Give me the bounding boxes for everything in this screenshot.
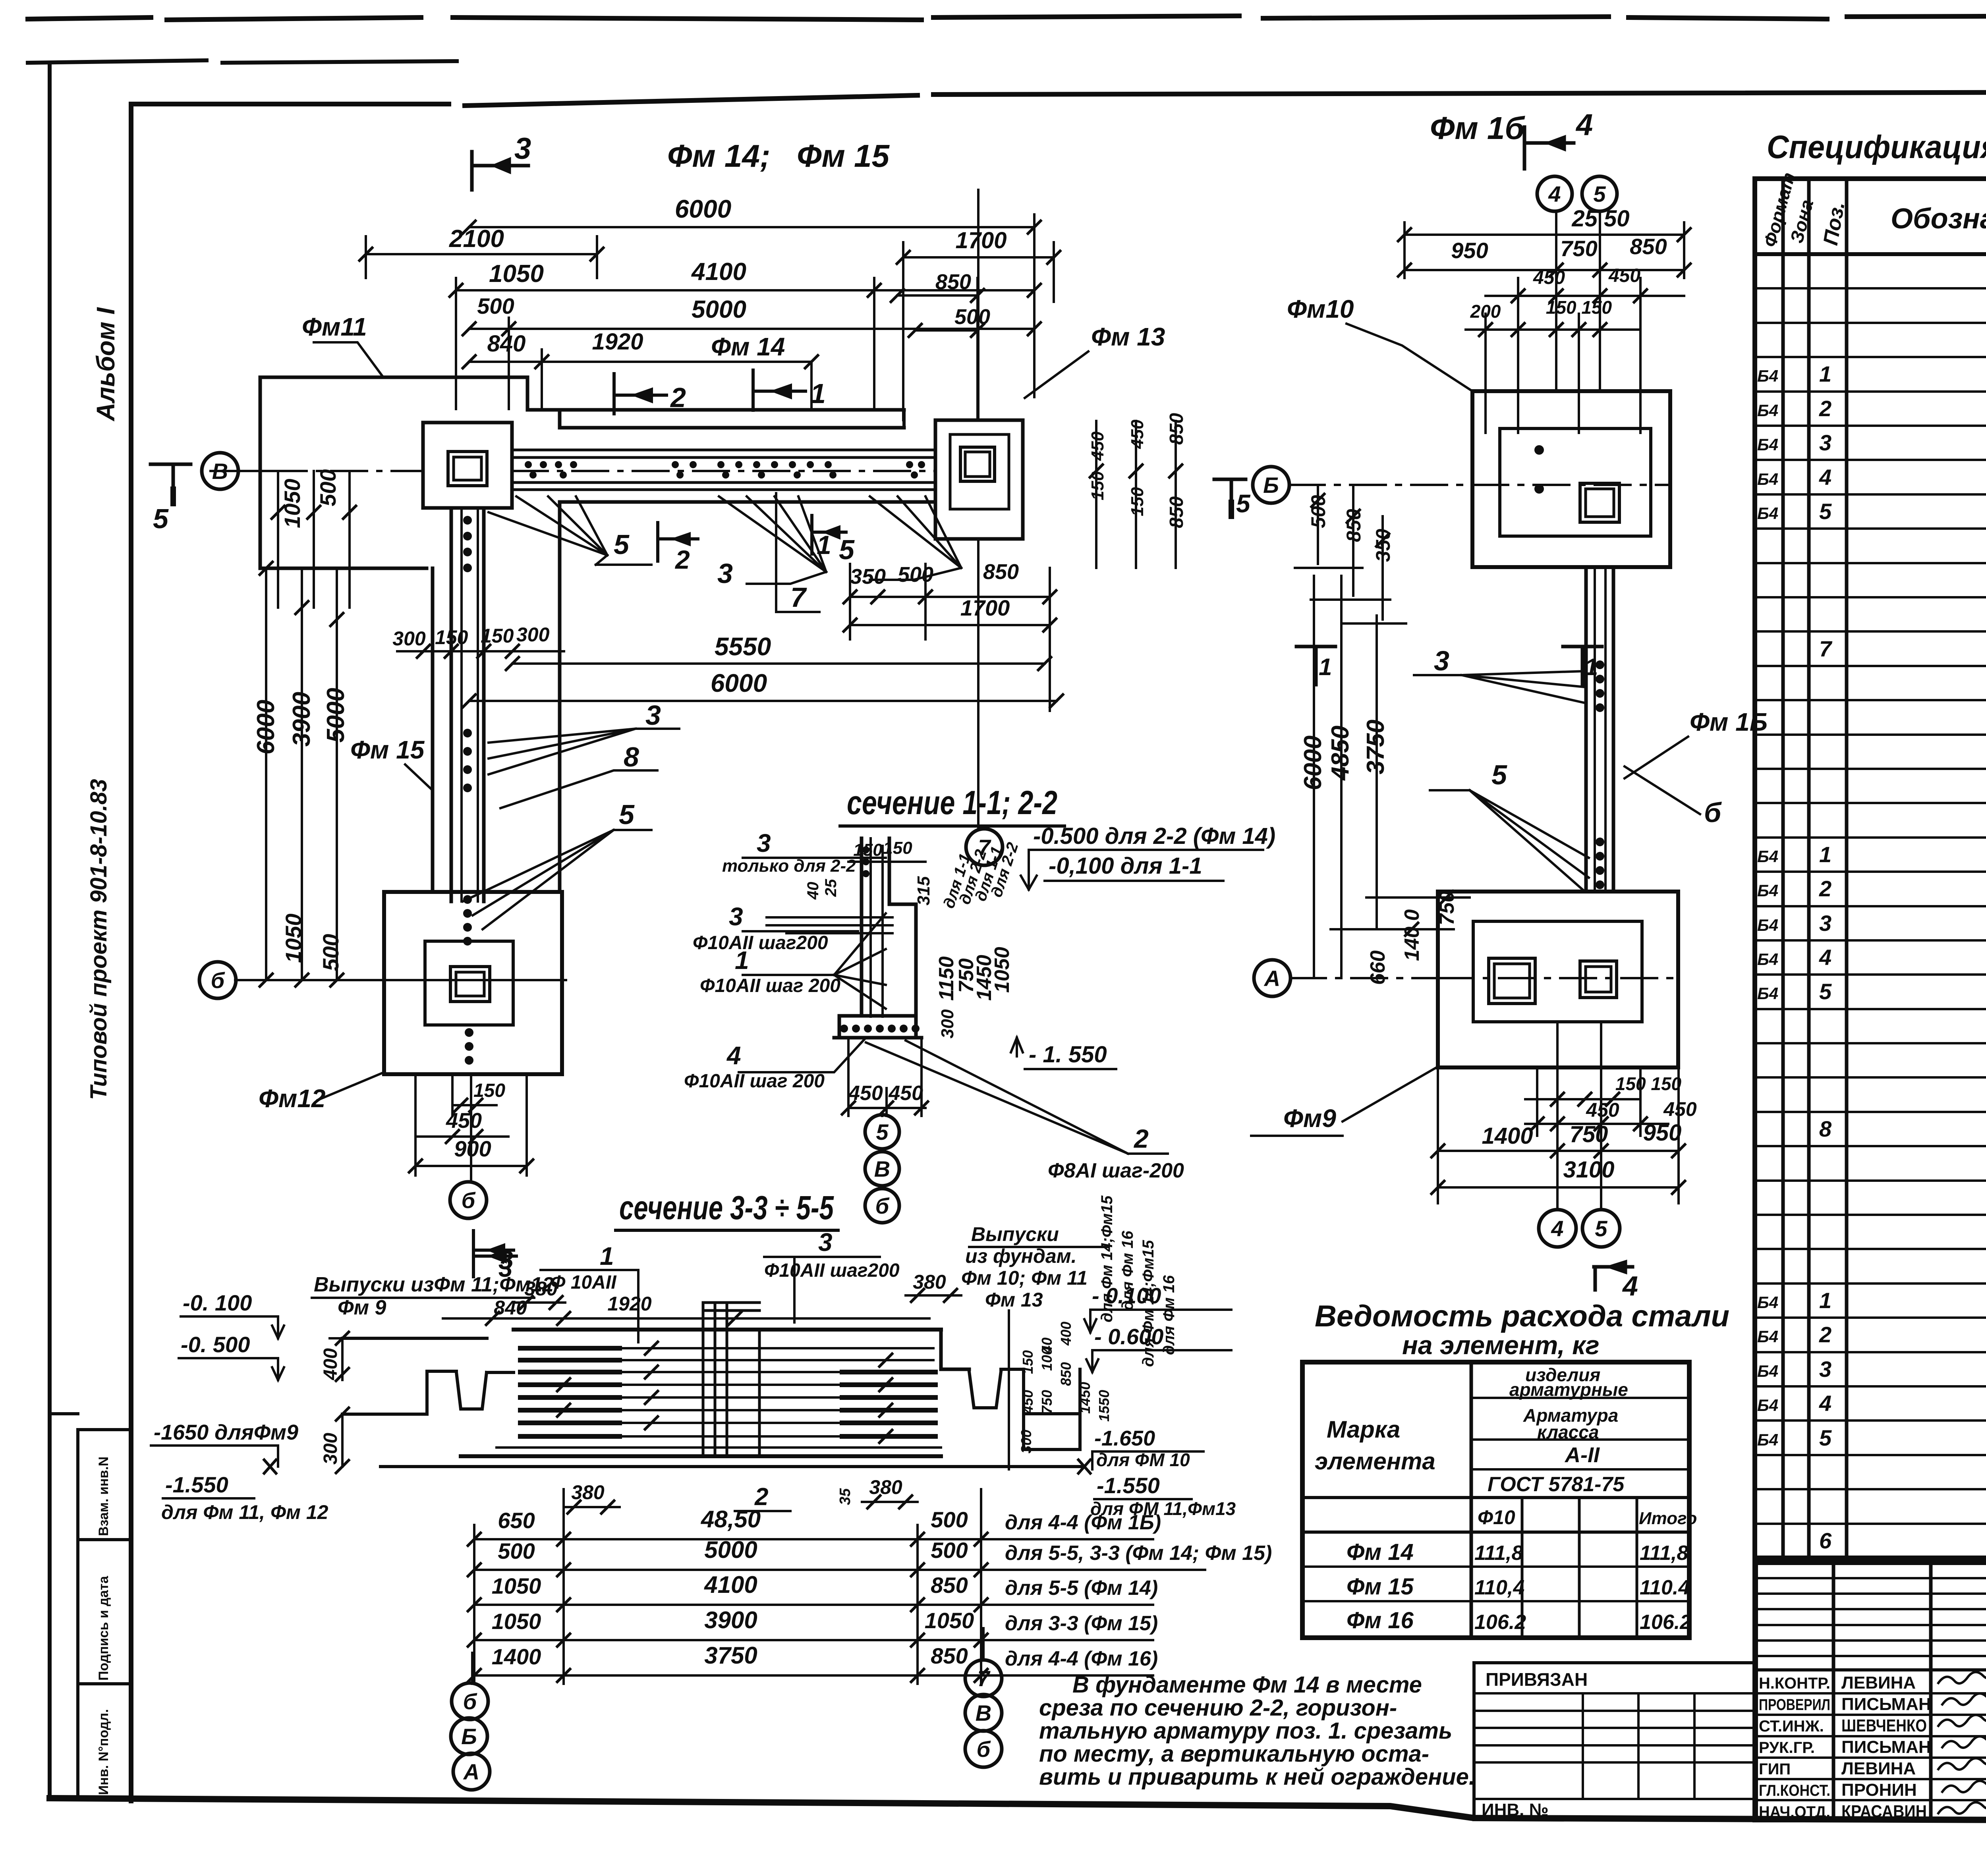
dims under Fm12: 150 450 900 [415, 1074, 527, 1181]
svg-text:1920: 1920 [592, 329, 643, 355]
svg-text:2100: 2100 [449, 225, 504, 253]
svg-text:- 0.600: - 0.600 [1094, 1324, 1163, 1349]
labels left of detail [684, 829, 856, 1092]
svg-text:Фм 15: Фм 15 [1347, 1574, 1414, 1600]
svg-text:Фм 16: Фм 16 [1347, 1608, 1414, 1633]
svg-text:150: 150 [481, 625, 514, 647]
svg-text:650: 650 [498, 1508, 535, 1533]
svg-text:Подпись и дата: Подпись и дата [96, 1575, 111, 1681]
svg-text:900: 900 [454, 1136, 491, 1161]
svg-text:5: 5 [1819, 499, 1832, 524]
svg-text:380: 380 [869, 1476, 902, 1498]
axis circles 4 5 top [1537, 176, 1572, 211]
svg-text:300: 300 [392, 627, 426, 650]
leader 3 fan mid beam [719, 496, 826, 584]
svg-text:450: 450 [446, 1109, 482, 1133]
svg-text:1: 1 [1819, 842, 1831, 867]
plan Fm14/Fm15 title [667, 138, 890, 174]
outline right of wall / inner court [558, 502, 562, 892]
svg-text:35: 35 [837, 1488, 854, 1505]
note paragraph [1039, 1672, 1475, 1790]
svg-text:850: 850 [1166, 413, 1187, 445]
svg-text:Б4: Б4 [1757, 1396, 1778, 1415]
svg-text:-0. 500: -0. 500 [181, 1332, 250, 1357]
svg-text:3: 3 [514, 132, 531, 166]
svg-text:400: 400 [1058, 1322, 1074, 1346]
svg-text:Ф 10АII: Ф 10АII [551, 1272, 617, 1293]
svg-text:450: 450 [1663, 1098, 1697, 1120]
hatch bars on detail wall [767, 917, 893, 933]
specification table [1755, 179, 1986, 1558]
svg-text:Б4: Б4 [1757, 401, 1778, 420]
svg-text:3900: 3900 [704, 1607, 757, 1633]
rotated text Album I [86, 307, 120, 1795]
svg-text:ГОСТ 5781-75: ГОСТ 5781-75 [1488, 1473, 1625, 1496]
svg-text:850: 850 [1343, 509, 1365, 542]
thick rebar stubs left [520, 1348, 935, 1436]
left margin strip boxes [50, 1414, 131, 1800]
svg-text:КРАСАВИН: КРАСАВИН [1841, 1802, 1927, 1821]
svg-text:3: 3 [1434, 645, 1449, 676]
svg-text:500: 500 [954, 305, 990, 329]
svg-text:для 5-5, 3-3 (Фм 14; Фм 15): для 5-5, 3-3 (Фм 14; Фм 15) [1005, 1542, 1272, 1565]
column double square left [448, 452, 487, 486]
section cut T marks 1-1 (Fm16) [1296, 647, 1335, 685]
svg-text:3: 3 [717, 558, 733, 589]
svg-text:5550: 5550 [715, 632, 771, 661]
svg-text:450: 450 [1088, 431, 1107, 461]
elevation marks left [154, 1290, 328, 1523]
svg-text:1: 1 [1819, 1288, 1831, 1313]
svg-text:4100: 4100 [704, 1571, 757, 1598]
svg-text:3100: 3100 [1563, 1157, 1614, 1183]
svg-text:1050: 1050 [280, 479, 305, 528]
dim 6000 top [469, 226, 1034, 228]
svg-text:111,8: 111,8 [1474, 1542, 1523, 1565]
svg-text:класса: класса [1537, 1422, 1599, 1442]
axis circles bottom right [982, 1628, 985, 1660]
Fm9 label [1283, 1104, 1336, 1133]
svg-text:ШЕВЧЕНКО: ШЕВЧЕНКО [1841, 1716, 1927, 1735]
svg-text:ЛЕВИНА: ЛЕВИНА [1841, 1673, 1916, 1693]
svg-text:6: 6 [1819, 1528, 1832, 1553]
svg-text:для 5-5 (Фм 14): для 5-5 (Фм 14) [1005, 1577, 1158, 1600]
svg-text:950: 950 [1451, 238, 1488, 263]
svg-text:Фм11: Фм11 [302, 313, 367, 341]
svg-text:6000: 6000 [1299, 735, 1327, 790]
svg-text:Выпуски изФм 11;Фм12: Выпуски изФм 11;Фм12 [314, 1273, 554, 1296]
svg-text:500: 500 [477, 293, 514, 318]
svg-text:3: 3 [757, 829, 771, 857]
svg-text:6000: 6000 [252, 700, 280, 755]
svg-text:1: 1 [735, 946, 749, 975]
svg-text:110,4: 110,4 [1474, 1576, 1524, 1599]
svg-text:7: 7 [1819, 636, 1833, 661]
svg-text:500: 500 [898, 563, 933, 587]
axis A [1290, 977, 1678, 979]
svg-text:750: 750 [1039, 1390, 1055, 1414]
svg-text:ПИСЬМАН: ПИСЬМАН [1841, 1695, 1931, 1714]
svg-text:40: 40 [804, 882, 822, 900]
svg-text:сечение 3-3 ÷ 5-5: сечение 3-3 ÷ 5-5 [619, 1189, 834, 1226]
dim 5550 / 6000 lower [512, 662, 1045, 665]
svg-text:СТ.ИНЖ.: СТ.ИНЖ. [1759, 1718, 1824, 1735]
rotated dlya labels right [1098, 1195, 1178, 1367]
svg-text:1050: 1050 [281, 913, 306, 963]
leader 8 [500, 770, 657, 808]
svg-text:-1.650: -1.650 [1094, 1426, 1155, 1450]
svg-text:Фм 14: Фм 14 [711, 332, 785, 361]
svg-text:3750: 3750 [704, 1642, 757, 1669]
svg-text:только для 2-2: только для 2-2 [722, 856, 856, 876]
axis circle b bottom [470, 1166, 472, 1182]
svg-text:Б4: Б4 [1757, 881, 1778, 900]
svg-text:А: А [463, 1759, 479, 1784]
svg-text:2: 2 [674, 545, 690, 574]
rebar horizontal lines in beam [496, 1348, 941, 1448]
svg-text:ЛЕВИНА: ЛЕВИНА [1841, 1759, 1916, 1778]
svg-text:Фм9: Фм9 [1283, 1104, 1336, 1133]
svg-text:350: 350 [850, 565, 886, 589]
svg-text:1: 1 [1819, 361, 1831, 386]
svg-text:Б4: Б4 [1757, 504, 1778, 523]
svg-text:Б4: Б4 [1757, 950, 1778, 969]
section marks 2 and 1 below beam [658, 523, 698, 561]
svg-text:1050: 1050 [489, 260, 544, 288]
svg-text:5: 5 [1819, 1425, 1832, 1450]
svg-text:1400: 1400 [1482, 1123, 1533, 1149]
svg-text:5000: 5000 [322, 688, 350, 743]
leader 3 to wall [489, 729, 679, 774]
svg-text:850: 850 [931, 1643, 968, 1668]
lower footing Fm12 [384, 892, 562, 1074]
svg-text:Ф10АII шаг 200: Ф10АII шаг 200 [700, 975, 840, 996]
svg-text:Фм10: Фм10 [1287, 295, 1354, 323]
svg-text:Итого: Итого [1639, 1509, 1697, 1528]
svg-text:Типовой проект 901-8-10.83: Типовой проект 901-8-10.83 [86, 779, 112, 1100]
dim 500 5000 [469, 328, 1034, 330]
svg-text:-1650 дляФм9: -1650 дляФм9 [154, 1421, 298, 1444]
svg-text:Б4: Б4 [1757, 1327, 1778, 1346]
svg-text:450: 450 [1533, 267, 1565, 288]
vedomost table [1302, 1362, 1689, 1638]
axis circles bottom left [471, 1653, 473, 1684]
svg-text:-0.500 для 2-2 (Фм 14): -0.500 для 2-2 (Фм 14) [1033, 823, 1275, 849]
svg-text:Б4: Б4 [1757, 1293, 1778, 1312]
svg-text:5: 5 [153, 503, 169, 534]
svg-text:400: 400 [320, 1348, 341, 1380]
svg-text:840: 840 [487, 331, 526, 357]
svg-text:на элемент, кг: на элемент, кг [1402, 1330, 1600, 1360]
svg-text:Марка: Марка [1327, 1416, 1400, 1443]
leader 5 (Fm16) [1430, 790, 1589, 892]
vertical dims left of footing [278, 471, 350, 608]
svg-text:300: 300 [938, 1009, 957, 1038]
svg-text:25: 25 [822, 879, 840, 897]
Fm15 label + leader [350, 735, 425, 764]
svg-text:Фм 14; Фм 15: Фм 14; Фм 15 [667, 138, 890, 174]
svg-text:850: 850 [983, 560, 1019, 584]
svg-text:для 4-4 (Фм 16): для 4-4 (Фм 16) [1005, 1647, 1158, 1670]
svg-text:ПРОВЕРИЛ: ПРОВЕРИЛ [1759, 1696, 1830, 1714]
svg-text:ПРОНИН: ПРОНИН [1841, 1780, 1917, 1800]
svg-text:150: 150 [435, 626, 468, 648]
section detail wall [862, 838, 916, 1016]
svg-text:Б: Б [461, 1724, 477, 1749]
section 3-3/5-5 title [619, 1189, 834, 1226]
svg-text:Ф10: Ф10 [1478, 1506, 1515, 1529]
right end profile [941, 1330, 969, 1369]
svg-text:3: 3 [498, 1254, 513, 1282]
svg-text:А: А [1263, 966, 1280, 991]
extension verticals dim stack [456, 214, 1034, 410]
svg-text:Ф10АII шаг200: Ф10АII шаг200 [693, 932, 828, 953]
svg-text:ИНВ. №: ИНВ. № [1482, 1800, 1549, 1820]
svg-text:1050: 1050 [492, 1609, 541, 1634]
svg-text:Взам. инв.N: Взам. инв.N [96, 1457, 111, 1536]
svg-text:500: 500 [498, 1538, 535, 1563]
svg-text:5: 5 [619, 799, 635, 830]
svg-text:Н.КОНТР.: Н.КОНТР. [1759, 1675, 1830, 1692]
svg-text:3: 3 [1819, 430, 1831, 455]
svg-text:1050: 1050 [991, 947, 1014, 993]
svg-text:3: 3 [1819, 1357, 1831, 1382]
svg-text:380: 380 [571, 1481, 605, 1504]
svg-text:150 150: 150 150 [1615, 1073, 1682, 1094]
svg-text:Фм 10; Фм 11: Фм 10; Фм 11 [961, 1267, 1088, 1289]
svg-text:3900: 3900 [288, 692, 315, 747]
svg-text:-0. 100: -0. 100 [183, 1290, 252, 1315]
axis circle B (Fm16) [1253, 467, 1289, 503]
svg-text:950: 950 [1643, 1120, 1682, 1146]
Fm10 label [1287, 295, 1354, 323]
svg-text:3: 3 [729, 902, 743, 931]
svg-text:3: 3 [818, 1228, 833, 1256]
svg-text:А-II: А-II [1564, 1443, 1600, 1467]
flag 3 left [473, 1242, 516, 1277]
leader 2 F8AI [866, 1040, 1168, 1154]
elevation -1.550 [1011, 1038, 1023, 1056]
svg-text:1050: 1050 [925, 1608, 974, 1633]
svg-text:500: 500 [318, 934, 343, 971]
vypuski label left [314, 1273, 554, 1319]
svg-text:НАЧ.ОТД.: НАЧ.ОТД. [1759, 1803, 1830, 1821]
svg-text:111,8: 111,8 [1640, 1542, 1688, 1565]
svg-text:1550: 1550 [1096, 1390, 1112, 1422]
svg-text:1: 1 [1319, 654, 1332, 680]
footing of detail [839, 1016, 916, 1038]
svg-text:Б4: Б4 [1757, 367, 1778, 385]
svg-text:150: 150 [473, 1080, 505, 1101]
svg-text:Альбом I: Альбом I [91, 307, 120, 422]
svg-text:ГИП: ГИП [1759, 1760, 1791, 1778]
svg-text:- 0.100: - 0.100 [1092, 1283, 1161, 1308]
svg-text:5: 5 [614, 529, 630, 560]
svg-text:150: 150 [853, 840, 883, 860]
svg-text:тальную арматуру поз. 1. сре: тальную арматуру поз. 1. срезать [1039, 1718, 1452, 1744]
svg-text:среза по сечению 2-2, горизон: среза по сечению 2-2, горизон- [1039, 1695, 1397, 1721]
svg-text:4: 4 [1551, 1216, 1563, 1241]
svg-text:б: б [211, 968, 225, 993]
svg-text:Инв. N°подл.: Инв. N°подл. [96, 1709, 111, 1795]
svg-text:110.4: 110.4 [1640, 1576, 1690, 1599]
svg-text:450: 450 [1020, 1390, 1036, 1414]
svg-text:850: 850 [935, 270, 971, 294]
svg-text:1700: 1700 [955, 228, 1007, 253]
elevation -0.500 for 2-2 [1033, 823, 1275, 849]
beam band lines [512, 450, 935, 490]
svg-text:840: 840 [494, 1297, 527, 1319]
svg-text:150: 150 [1020, 1350, 1036, 1374]
svg-text:вить и приварить к ней огра: вить и приварить к ней ограждение. [1039, 1764, 1475, 1790]
svg-text:ГЛ.КОНСТ.: ГЛ.КОНСТ. [1759, 1782, 1830, 1799]
axis circles under detail [881, 1114, 883, 1116]
svg-text:2: 2 [1819, 1322, 1831, 1347]
svg-text:1050: 1050 [492, 1573, 541, 1598]
Fm16 plan title [1430, 110, 1525, 146]
svg-text:40: 40 [1039, 1338, 1055, 1354]
svg-text:450: 450 [1586, 1099, 1619, 1121]
svg-text:Фм 1Б: Фм 1Б [1690, 708, 1768, 736]
svg-text:Спецификация монолитных фун: Спецификация монолитных фундаментов [1767, 129, 1986, 165]
svg-text:450: 450 [1608, 265, 1640, 286]
svg-text:1450: 1450 [1077, 1382, 1093, 1414]
leader 7 [776, 493, 819, 612]
left vertical dim stack 6000/3900/5000 [266, 568, 337, 980]
svg-text:4: 4 [1819, 1391, 1831, 1416]
svg-text:8: 8 [624, 741, 639, 772]
Fm9 lower footing outline [1438, 892, 1678, 1067]
svg-text:-0,100 для 1-1: -0,100 для 1-1 [1049, 853, 1202, 879]
svg-text:Выпуски: Выпуски [971, 1223, 1059, 1245]
main section body [514, 1328, 941, 1332]
svg-text:850: 850 [1058, 1362, 1074, 1386]
svg-text:850: 850 [1630, 234, 1667, 259]
dimension rows [474, 1489, 981, 1684]
leader 6 label [1704, 797, 1722, 828]
svg-text:3750: 3750 [1362, 720, 1389, 774]
svg-text:1400: 1400 [492, 1644, 541, 1669]
svg-text:4: 4 [1819, 465, 1831, 490]
svg-text:4: 4 [1548, 181, 1561, 207]
vypuski label right [961, 1223, 1088, 1311]
svg-text:3: 3 [1819, 911, 1831, 936]
svg-text:5: 5 [1595, 1216, 1607, 1241]
svg-text:5000: 5000 [692, 296, 746, 323]
plan outline top-left wing [260, 377, 527, 568]
label Fm11 with leader [302, 313, 367, 341]
axis b left circle [235, 979, 566, 981]
svg-text:Фм12: Фм12 [259, 1084, 326, 1113]
svg-text:Фм 1б: Фм 1б [1430, 110, 1525, 146]
section 1-1 2-2 title [847, 784, 1057, 821]
svg-text:1: 1 [1585, 654, 1598, 680]
svg-text:б: б [875, 1193, 890, 1218]
svg-text:5: 5 [876, 1119, 889, 1145]
svg-text:ПРИВЯЗАН: ПРИВЯЗАН [1486, 1669, 1588, 1690]
svg-text:5: 5 [1491, 759, 1507, 790]
svg-text:4: 4 [726, 1041, 741, 1070]
flag 4 bottom [1594, 1262, 1632, 1290]
svg-text:380: 380 [524, 1278, 558, 1300]
svg-text:1: 1 [817, 530, 831, 560]
svg-text:для 4-4 (Фм 1Б): для 4-4 (Фм 1Б) [1005, 1511, 1161, 1534]
svg-text:150: 150 [883, 838, 912, 858]
rotated dims right of right footing [1096, 421, 1176, 568]
vertical bars middle [703, 1303, 759, 1453]
svg-text:315: 315 [914, 876, 933, 905]
svg-text:6000: 6000 [711, 669, 767, 697]
svg-text:1: 1 [600, 1242, 614, 1270]
svg-text:4: 4 [1819, 945, 1831, 970]
Fm16 label right [1690, 708, 1768, 736]
svg-text:1700: 1700 [960, 595, 1010, 620]
label 1 F10AII [600, 1242, 614, 1270]
svg-text:для Фм 11, Фм 12: для Фм 11, Фм 12 [161, 1501, 328, 1523]
svg-text:- 1. 550: - 1. 550 [1029, 1042, 1107, 1067]
svg-text:750: 750 [1560, 236, 1597, 261]
section mark 5 left [151, 464, 191, 504]
svg-text:Фм 13: Фм 13 [985, 1289, 1043, 1311]
svg-text:В: В [976, 1700, 991, 1725]
Fm16 wall strip vertical [1586, 567, 1613, 892]
svg-text:2: 2 [1133, 1124, 1149, 1153]
svg-text:300: 300 [320, 1433, 341, 1465]
svg-text:5: 5 [839, 534, 855, 565]
svg-text:300: 300 [1018, 1430, 1034, 1453]
Fm10 footing [1472, 391, 1670, 567]
svg-text:Ф10АII шаг 200: Ф10АII шаг 200 [684, 1071, 825, 1092]
svg-text:Фм 15: Фм 15 [350, 735, 425, 764]
vertical dims 6000 4850 3750 (Fm16) [1314, 576, 1377, 978]
left small dims 500 850 350 [1318, 485, 1383, 620]
flag 4 top [1524, 127, 1574, 169]
svg-text:500: 500 [931, 1507, 968, 1532]
label 3 F10AII shag200 [818, 1228, 833, 1256]
svg-text:В: В [874, 1156, 890, 1181]
svg-text:Б4: Б4 [1757, 435, 1778, 454]
axis circles 4 5 bottom [1539, 1210, 1576, 1247]
svg-text:Б4: Б4 [1757, 1362, 1778, 1380]
section mark 5 (Fm16) [1214, 479, 1246, 516]
svg-text:Фм 13: Фм 13 [1091, 322, 1165, 351]
svg-text:2: 2 [1819, 396, 1831, 421]
svg-text:150: 150 [1128, 487, 1147, 516]
svg-text:450: 450 [1128, 419, 1147, 449]
dim 2100 [366, 236, 597, 278]
Fm13 label [1091, 322, 1165, 351]
section flag 3 top [472, 152, 528, 190]
svg-text:380: 380 [913, 1271, 946, 1293]
title block [1755, 1562, 1986, 1820]
svg-text:РУК.ГР.: РУК.ГР. [1759, 1739, 1815, 1756]
svg-text:4: 4 [1575, 108, 1593, 142]
dim 840 1920 Fm14 [469, 361, 811, 363]
svg-text:7: 7 [790, 582, 807, 613]
svg-text:Ф10АII шаг200: Ф10АII шаг200 [764, 1260, 900, 1281]
svg-text:850: 850 [931, 1573, 968, 1598]
svg-text:106.2: 106.2 [1640, 1611, 1691, 1634]
axis circle V left [238, 470, 270, 472]
dim 1050 4100 [456, 289, 1034, 291]
right footing Fm13 [935, 420, 1023, 539]
svg-text:из фундам.: из фундам. [965, 1245, 1077, 1267]
svg-text:1: 1 [810, 378, 826, 409]
svg-text:2: 2 [1819, 876, 1831, 901]
svg-text:Обозначение: Обозначение [1891, 203, 1986, 235]
privyazan box [1474, 1663, 1755, 1820]
svg-text:500: 500 [931, 1538, 968, 1563]
